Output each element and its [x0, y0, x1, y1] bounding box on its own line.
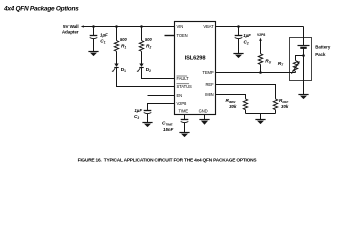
svg-text:VBAT: VBAT — [203, 24, 214, 29]
battery pack box — [290, 38, 312, 81]
svg-text:VIN: VIN — [177, 24, 184, 29]
svg-text:500: 500 — [145, 37, 153, 42]
wire D2 to FAULT — [142, 68, 175, 79]
resistor R2 — [139, 27, 143, 64]
ground (battery) — [298, 95, 308, 100]
wire VBAT rail — [216, 26, 304, 28]
wire VIN rail — [84, 26, 175, 28]
node junction C1 — [92, 25, 95, 28]
svg-text:REF: REF — [206, 82, 215, 87]
svg-text:V2P8: V2P8 — [257, 33, 265, 37]
wire resistor bottoms join — [246, 113, 276, 115]
wire IMIN line — [216, 95, 246, 99]
svg-text:Adapter: Adapter — [62, 30, 79, 35]
wire TEMP line — [216, 72, 296, 74]
svg-text:15nF: 15nF — [163, 127, 174, 132]
ground (CTIME) — [179, 133, 189, 138]
svg-text:FAULT: FAULT — [177, 76, 190, 81]
wire V2P8 to C3 — [148, 104, 175, 111]
ground (IC GND) — [199, 120, 209, 125]
capacitor C2 — [235, 27, 243, 54]
svg-text:TEMP: TEMP — [202, 70, 213, 75]
wire D1 to STATUS — [117, 68, 175, 87]
capacitor C3 — [144, 111, 152, 123]
svg-text:Pack: Pack — [315, 52, 326, 57]
wire TOEN stub — [165, 35, 175, 37]
ground (C3) — [142, 123, 152, 128]
node junction RU/TEMP — [259, 71, 262, 74]
svg-text:30k: 30k — [281, 104, 289, 109]
node junction C2 — [237, 25, 240, 28]
resistor RU — [258, 54, 262, 73]
svg-text:30k: 30k — [229, 104, 237, 109]
ground (C1) — [88, 52, 98, 57]
svg-text:ISL6298: ISL6298 — [185, 56, 206, 62]
capacitor CTIME — [181, 115, 189, 133]
ground (C2) — [233, 54, 243, 59]
wire REF line — [216, 85, 276, 99]
thermistor RT — [291, 61, 298, 74]
svg-text:Battery: Battery — [315, 44, 331, 49]
wire VBAT down to battery — [303, 27, 305, 46]
node V2P8 supply arrow — [257, 33, 265, 54]
svg-text:4x4 QFN Package Options: 4x4 QFN Package Options — [3, 6, 79, 13]
diode D2 — [137, 64, 144, 72]
svg-text:EN: EN — [177, 93, 183, 98]
wire branch to RT — [296, 56, 304, 61]
svg-text:TIME: TIME — [179, 108, 189, 113]
resistor R1 — [114, 27, 118, 64]
svg-text:5V Wall: 5V Wall — [63, 24, 78, 29]
input arrow — [81, 25, 84, 27]
svg-text:GND: GND — [199, 108, 208, 113]
battery BT1 — [298, 46, 310, 48]
node junction battery/RT — [302, 54, 305, 57]
wire ground stub — [260, 114, 262, 120]
resistor RIMIN — [243, 99, 247, 114]
wire EN stub — [148, 95, 175, 97]
ground (RIMIN/RREF) — [255, 120, 265, 125]
svg-text:STATUS: STATUS — [177, 84, 192, 89]
svg-text:1µF: 1µF — [134, 108, 142, 113]
node junction R2 — [140, 25, 143, 28]
svg-text:1µF: 1µF — [243, 33, 251, 38]
svg-text:TOEN: TOEN — [177, 33, 188, 38]
wire battery minus down — [303, 48, 305, 95]
wire GND pin — [204, 115, 206, 120]
svg-text:500: 500 — [120, 37, 128, 42]
capacitor C1 — [90, 27, 98, 52]
diode D1 — [112, 64, 119, 72]
resistor RREF — [273, 99, 277, 114]
svg-text:V2P8: V2P8 — [177, 101, 188, 106]
svg-text:1µF: 1µF — [100, 33, 108, 38]
op-amp U1 ISL6298 charger IC — [175, 22, 216, 115]
svg-text:IMIN: IMIN — [205, 92, 213, 97]
node junction R1 — [115, 25, 118, 28]
svg-text:FIGURE 16. TYPICAL APPLICATIO: FIGURE 16. TYPICAL APPLICATION CIRCUIT F… — [78, 157, 258, 163]
